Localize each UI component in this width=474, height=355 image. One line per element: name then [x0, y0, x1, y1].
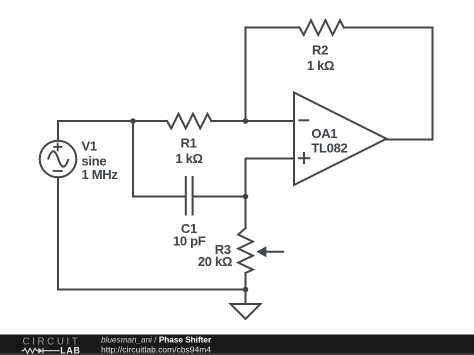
- V1 sine glyph: [48, 151, 69, 166]
- svg-text:R2: R2: [312, 43, 328, 58]
- wire op-amp output: [387, 139, 433, 141]
- node A: [130, 118, 136, 124]
- svg-text:http://circuitlab.com/cbs94m4: http://circuitlab.com/cbs94m4: [101, 345, 211, 355]
- resistor R2: [300, 20, 344, 35]
- wire top to R2 left: [246, 27, 300, 29]
- ground: [231, 304, 261, 319]
- wire node A to R1 left: [133, 120, 167, 122]
- svg-text:1 kΩ: 1 kΩ: [307, 58, 334, 73]
- node C: [243, 194, 249, 200]
- CircuitLab logo resistor-diode glyph: [22, 348, 60, 354]
- voltage source V1: [40, 141, 77, 178]
- wire feedback right vertical: [432, 28, 434, 140]
- svg-text:1 kΩ: 1 kΩ: [175, 151, 202, 166]
- svg-text:20 kΩ: 20 kΩ: [198, 254, 232, 269]
- op-amp plus input symbol: [298, 152, 310, 164]
- wire V1 bottom lead: [58, 178, 246, 290]
- op-amp OA1: [294, 93, 387, 186]
- wire node D to ground: [245, 290, 247, 305]
- resistor R1: [167, 114, 211, 129]
- wire feedback left vertical: [245, 28, 247, 122]
- wire node C down to R3 top: [245, 197, 247, 229]
- svg-text:V1: V1: [82, 138, 97, 153]
- node D: [243, 287, 249, 293]
- op-amp minus input symbol: [298, 119, 309, 121]
- wire R3 bottom to node D: [245, 273, 247, 290]
- resistor R3: [238, 228, 253, 273]
- R3 wiper arrow: [257, 246, 285, 257]
- svg-text:10 pF: 10 pF: [173, 233, 206, 248]
- wire C1 right to node C: [193, 196, 246, 198]
- capacitor C1: [186, 177, 193, 215]
- wire node A down to C1: [133, 121, 186, 197]
- svg-text:sine: sine: [82, 153, 107, 168]
- svg-text:TL082: TL082: [311, 141, 347, 156]
- wire node B to op-amp inverting input: [246, 120, 295, 122]
- svg-text:OA1: OA1: [311, 126, 337, 141]
- wire V1 top lead: [58, 121, 133, 141]
- wire R2 right to top-right corner: [344, 27, 433, 29]
- footer bar: [0, 335, 474, 355]
- svg-text:LAB: LAB: [60, 346, 80, 355]
- wire R1 right to node B: [211, 120, 245, 122]
- node B: [243, 118, 249, 124]
- V1 minus symbol: [53, 170, 63, 172]
- svg-text:bluesman_ani / Phase Shifter: bluesman_ani / Phase Shifter: [101, 336, 212, 345]
- svg-text:R1: R1: [180, 135, 196, 150]
- V1 plus symbol: [53, 143, 62, 152]
- wire node C up and right to op-amp non-inverting input: [246, 159, 295, 197]
- svg-text:1 MHz: 1 MHz: [82, 167, 119, 182]
